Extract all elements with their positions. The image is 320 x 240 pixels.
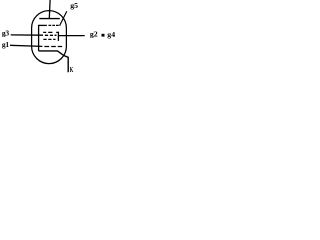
wire g5 to cathode: [38, 25, 40, 51]
grid g5: [39, 24, 47, 26]
anode plate A: [39, 18, 60, 20]
wire g2+g4 lead: [58, 35, 84, 37]
svg-text:g1: g1: [2, 40, 9, 49]
svg-text:K: K: [70, 65, 74, 74]
junction dot: [102, 34, 105, 37]
wire g1 lead: [10, 45, 42, 46]
svg-text:g3: g3: [2, 29, 9, 38]
svg-text:g2: g2: [90, 30, 98, 39]
envelope: [32, 11, 67, 64]
wire screen bus g2+g4: [57, 32, 59, 41]
svg-text:g5: g5: [70, 1, 78, 10]
grid g3: [45, 34, 57, 36]
grid g2: [43, 38, 55, 40]
cathode K: [39, 51, 69, 72]
anode lead: [48, 0, 51, 19]
grid g1: [44, 46, 62, 48]
svg-text:g4: g4: [107, 30, 115, 39]
grid g4: [43, 31, 52, 33]
wire g3 lead: [11, 34, 43, 36]
wire g5 label leader: [60, 11, 67, 25]
wire g4 to screen bus: [56, 31, 59, 33]
vacuum tube U1 (pentagrid converter symbol): [0, 0, 119, 77]
